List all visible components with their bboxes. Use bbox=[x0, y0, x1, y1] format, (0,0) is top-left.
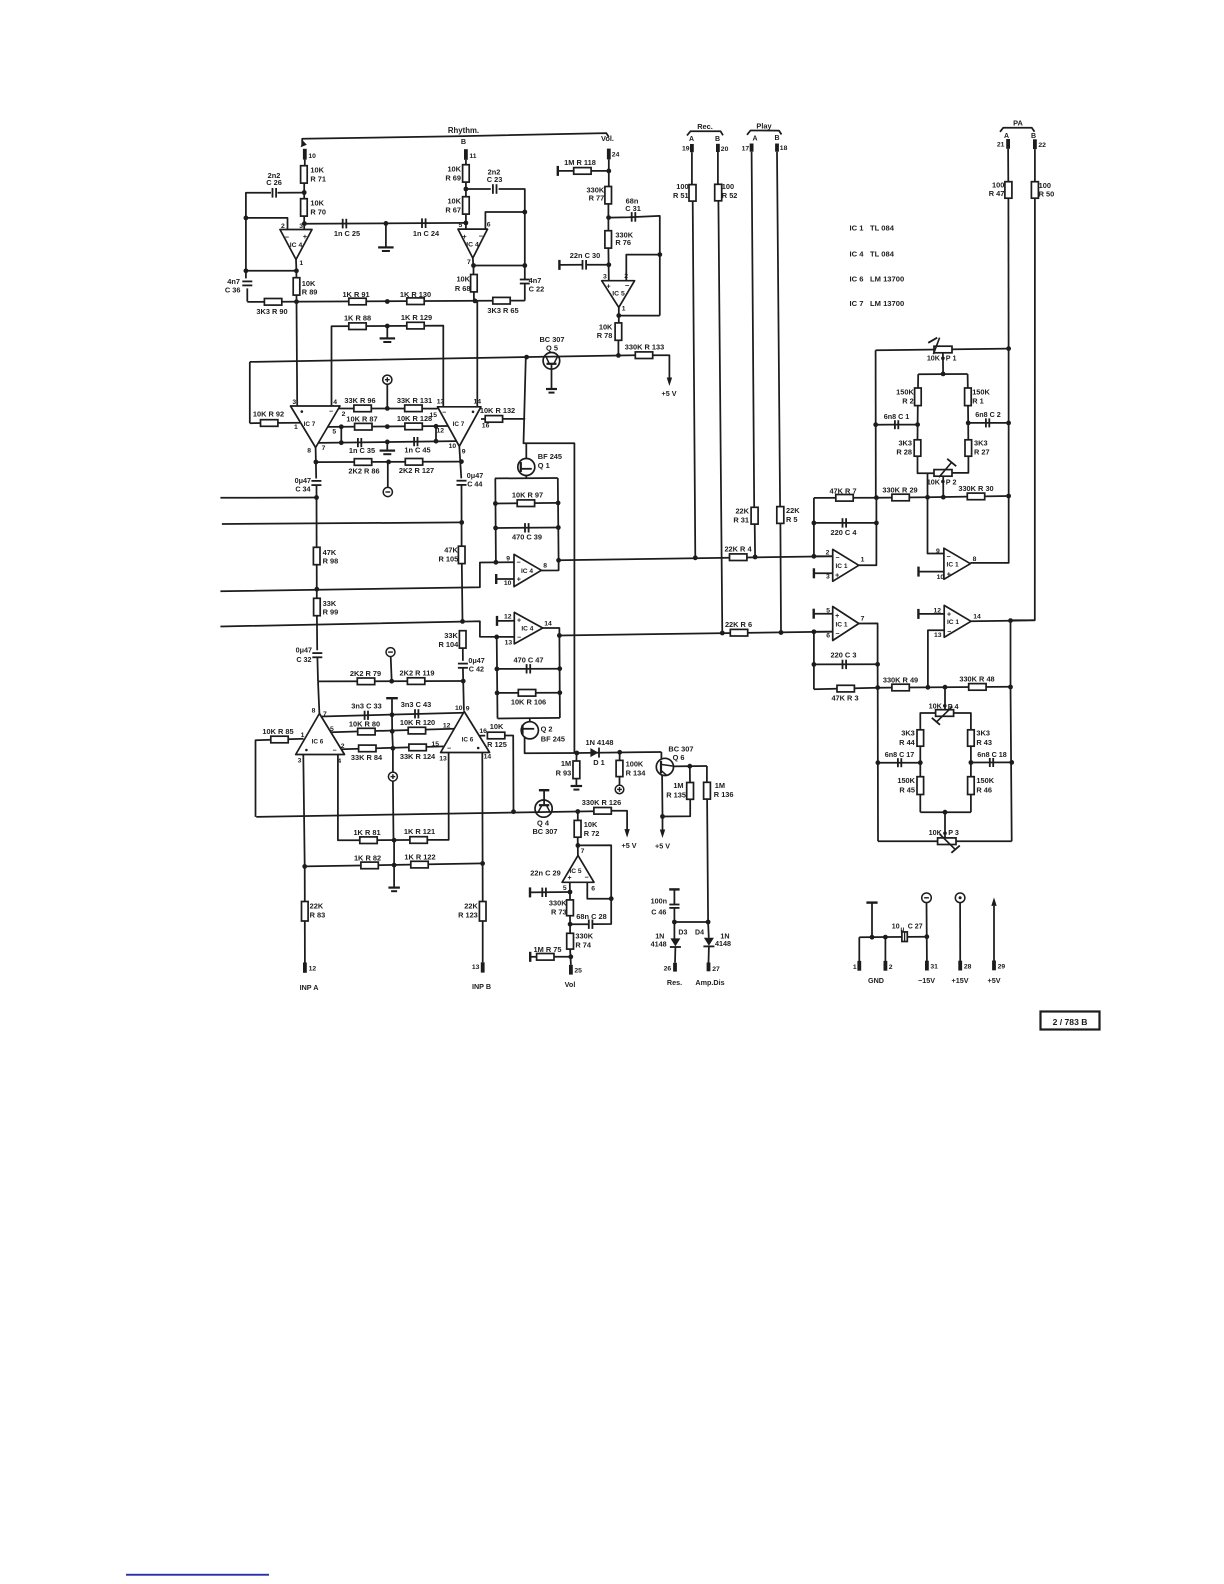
resistor R98 47K bbox=[313, 547, 320, 564]
resistor R72 10K bbox=[574, 820, 581, 837]
wire IC1b output bbox=[859, 623, 878, 664]
svg-text:9: 9 bbox=[462, 449, 466, 456]
svg-text:2K2 R 79: 2K2 R 79 bbox=[350, 669, 381, 678]
node bus2 right junction bbox=[480, 861, 485, 866]
op-amp IC7 section B (down, pins 13,14,15,12,10,16,9) bbox=[438, 407, 482, 447]
wire R45 top bbox=[919, 763, 921, 777]
svg-text:330K R 49: 330K R 49 bbox=[883, 675, 918, 684]
svg-text:12: 12 bbox=[436, 428, 444, 435]
ground inverted above C33 line bbox=[386, 697, 398, 699]
op-amp IC4 section B (pins 5,6,7) bbox=[458, 229, 488, 258]
svg-text:13: 13 bbox=[934, 632, 942, 639]
wire Q5 base to ground bbox=[551, 364, 553, 389]
svg-text:10K R 120: 10K R 120 bbox=[400, 718, 435, 727]
svg-text:10K R 87: 10K R 87 bbox=[346, 414, 377, 423]
svg-text:1n C 24: 1n C 24 bbox=[413, 229, 440, 238]
diode D1 1N4148 bbox=[590, 748, 598, 757]
wire IC1d output bbox=[971, 620, 1035, 621]
capacitor C34 0u47 bbox=[311, 480, 321, 482]
node bus mid junction bbox=[385, 299, 390, 304]
wire plus to bus bbox=[386, 384, 388, 408]
svg-text:−: − bbox=[517, 560, 521, 567]
svg-text:33K R 131: 33K R 131 bbox=[397, 396, 432, 405]
svg-text:47K: 47K bbox=[444, 546, 458, 555]
wire R72 to pin7 node bbox=[577, 837, 579, 855]
wire pin12 stub bbox=[918, 613, 944, 615]
op-amp IC6 section B (up, pins 10,9,12,15,13,16,14) bbox=[441, 712, 490, 753]
resistor R80 10K bbox=[358, 728, 375, 735]
svg-text:330K: 330K bbox=[575, 932, 593, 941]
wire IC4c output bbox=[541, 560, 558, 570]
wire output loop right bbox=[659, 255, 661, 316]
svg-text:6n8 C 1: 6n8 C 1 bbox=[884, 412, 910, 421]
svg-text:R 76: R 76 bbox=[615, 238, 631, 247]
svg-text:3n3 C 43: 3n3 C 43 bbox=[401, 700, 431, 709]
power +5V arrow below Q6 bbox=[662, 817, 664, 831]
svg-text:100K: 100K bbox=[626, 759, 644, 768]
svg-text:D4: D4 bbox=[695, 930, 704, 937]
net PA bracket bbox=[1000, 128, 1035, 132]
svg-text:25: 25 bbox=[574, 967, 582, 974]
svg-text:5: 5 bbox=[563, 885, 567, 892]
node pin7 junction bbox=[576, 843, 581, 848]
svg-text:10K R 132: 10K R 132 bbox=[480, 406, 515, 415]
node pin3 IC5 junction bbox=[606, 262, 611, 267]
node left loop junction bbox=[244, 216, 249, 221]
pin 12 INP A bbox=[303, 963, 307, 973]
wire IC6R pin16 to R125 bbox=[479, 735, 485, 737]
wire R6 line to IC1b bbox=[559, 632, 832, 636]
wire C46 to D3 node bbox=[673, 908, 675, 939]
svg-text:10K: 10K bbox=[310, 166, 324, 175]
resistor R71 10K bbox=[301, 166, 308, 183]
svg-text:−: − bbox=[329, 408, 333, 415]
wire pin6 stub bbox=[814, 631, 833, 633]
wire output to left loop bbox=[246, 270, 297, 272]
svg-text:1M: 1M bbox=[673, 781, 683, 790]
resistor R87 10K bbox=[355, 423, 372, 430]
resistor R86 2K2 bbox=[354, 459, 371, 466]
node pin2/C31/output junction bbox=[657, 252, 662, 257]
wire Q1 source bbox=[525, 476, 527, 479]
svg-text:R 74: R 74 bbox=[575, 941, 592, 950]
svg-text:22: 22 bbox=[1038, 142, 1046, 149]
wire IC6L apex vertical from bus3 bbox=[318, 681, 319, 713]
svg-text:BF 245: BF 245 bbox=[538, 452, 562, 461]
svg-text:15: 15 bbox=[431, 741, 439, 748]
svg-text:1M: 1M bbox=[561, 759, 571, 768]
svg-text:1N 4148: 1N 4148 bbox=[586, 738, 614, 747]
svg-text:21: 21 bbox=[997, 142, 1005, 149]
node C3 left junction bbox=[812, 662, 817, 667]
svg-text:R 105: R 105 bbox=[438, 554, 458, 563]
wire minus stem to bus3 bbox=[391, 657, 392, 682]
svg-text:10K R 97: 10K R 97 bbox=[512, 491, 543, 500]
label sheet number 2/783B bbox=[1041, 1012, 1100, 1030]
wire output to C22 branch bbox=[474, 265, 525, 267]
op-amp IC5 section B (up, pins 7,5,6) bbox=[562, 855, 594, 882]
wire R104 to C42 bbox=[462, 648, 464, 661]
resistor R1 150K bbox=[965, 388, 972, 406]
wire R45 to bottom bus bbox=[919, 795, 921, 813]
capacitor C22 4n7 bbox=[520, 279, 530, 281]
svg-text:IC 1: IC 1 bbox=[947, 561, 959, 568]
wire IC4b output bbox=[472, 258, 475, 265]
wire GND bus bbox=[859, 936, 927, 939]
wire C18 line bbox=[971, 761, 1012, 763]
wire R69 to R67 bbox=[465, 182, 467, 198]
resistor R119 2K2 bbox=[407, 678, 424, 685]
wire R30 line bbox=[928, 496, 1009, 497]
wire pin2 loop of IC5 bbox=[626, 255, 660, 281]
wire GND stem bbox=[871, 903, 873, 938]
svg-text:+15V: +15V bbox=[952, 976, 969, 985]
wire R97 line bbox=[495, 502, 558, 505]
node D4 junction bbox=[706, 920, 711, 925]
node IC5 output junction bbox=[616, 313, 621, 318]
node C28/R73/R74 junction bbox=[568, 922, 573, 927]
diode D3 1N4148 bbox=[670, 938, 680, 946]
node pin13 riser junction bbox=[926, 685, 931, 690]
svg-text:3K3: 3K3 bbox=[898, 438, 912, 447]
svg-text:7: 7 bbox=[861, 615, 865, 622]
node R30 right junction bbox=[1006, 494, 1011, 499]
wire R46 top bbox=[970, 763, 972, 777]
capacitor C45 1n bbox=[413, 437, 415, 446]
svg-text:IC 1: IC 1 bbox=[835, 622, 847, 629]
svg-text:68n C 28: 68n C 28 bbox=[576, 912, 606, 921]
node C3 right junction bbox=[875, 662, 880, 667]
svg-text:TL 084: TL 084 bbox=[870, 224, 895, 233]
svg-text:R 104: R 104 bbox=[438, 640, 459, 649]
wire R123 pin 13 bbox=[482, 921, 484, 962]
wire D4 to pin 27 bbox=[708, 946, 710, 962]
node C2 left junction bbox=[966, 421, 971, 426]
svg-text:10K R 80: 10K R 80 bbox=[349, 719, 380, 728]
capacitor C26 2n2 bbox=[272, 188, 274, 198]
svg-text:150K: 150K bbox=[897, 776, 915, 785]
wire R88/R129 bus bbox=[332, 326, 444, 407]
wire pin1 riser bbox=[858, 937, 860, 961]
svg-text:10: 10 bbox=[449, 443, 457, 450]
wire R136 corner down bbox=[706, 766, 708, 782]
wire R68 to bus bbox=[473, 292, 475, 301]
node C39 right bbox=[556, 525, 561, 530]
ground below R88/R129 bbox=[386, 326, 388, 338]
op-amp IC4 section D (pins 12,13,14) bbox=[514, 612, 542, 644]
wire C25 line bbox=[304, 222, 465, 225]
svg-text:IC 1: IC 1 bbox=[835, 563, 847, 570]
wire R78 to long wire bbox=[617, 340, 619, 355]
svg-text:R 2: R 2 bbox=[902, 397, 914, 406]
svg-text:470 C 47: 470 C 47 bbox=[514, 655, 544, 664]
node bus3 right junction bbox=[461, 679, 466, 684]
node R7/R29/output junction bbox=[874, 495, 879, 500]
resistor R82 1K bbox=[361, 862, 378, 869]
svg-text:R 83: R 83 bbox=[310, 911, 326, 920]
resistor R49 330K bbox=[892, 684, 909, 691]
svg-text:33K: 33K bbox=[444, 631, 458, 640]
capacitor C46 100n bbox=[669, 904, 679, 906]
svg-text:150K: 150K bbox=[896, 388, 914, 397]
wire 2K2 bus bbox=[316, 461, 462, 464]
wire plus stem bbox=[392, 748, 394, 772]
svg-text:−: − bbox=[285, 233, 290, 242]
wire C39 line bbox=[496, 527, 559, 530]
wire R47 down to P1 bbox=[1007, 198, 1009, 348]
node 2K2 bus mid junction bbox=[386, 460, 391, 465]
wire pin3 riser INP A bbox=[303, 755, 304, 867]
op-amp IC1 section B (pins 5,6,7) bbox=[833, 607, 859, 641]
node pin6 IC1b junction bbox=[812, 629, 817, 634]
svg-text:−: − bbox=[835, 631, 839, 638]
svg-text:13: 13 bbox=[505, 639, 513, 646]
wire R133 to +5V corner bbox=[653, 355, 670, 378]
svg-text:R 78: R 78 bbox=[597, 331, 613, 340]
op-amp IC4 section C (pins 9,10,8) bbox=[514, 554, 541, 586]
wire R52 down to R6 line bbox=[718, 201, 722, 633]
svg-text:C 32: C 32 bbox=[296, 655, 311, 664]
resistor R65 3K3 bbox=[493, 297, 510, 304]
svg-text:3K3: 3K3 bbox=[976, 729, 990, 738]
svg-text:R 5: R 5 bbox=[786, 515, 798, 524]
decorative blue rule bbox=[126, 1574, 269, 1576]
wire Q4 long line bbox=[256, 811, 594, 817]
svg-text:R 77: R 77 bbox=[589, 193, 605, 202]
capacitor C30 22n bbox=[582, 260, 584, 270]
svg-text:14: 14 bbox=[474, 398, 482, 405]
svg-text:+: + bbox=[835, 573, 839, 580]
svg-text:0μ47: 0μ47 bbox=[296, 645, 312, 654]
svg-text:−15V: −15V bbox=[918, 976, 935, 985]
op-amp IC1 section D (pins 12,13,14) bbox=[944, 605, 971, 637]
wire PA B line bbox=[1034, 149, 1036, 182]
wire input line 4 bbox=[220, 621, 514, 637]
svg-text:IC 4: IC 4 bbox=[850, 250, 865, 259]
wire output loop right vertical bbox=[558, 636, 561, 718]
wire pin5 stub bbox=[569, 882, 571, 892]
wire P4 network right vertical bbox=[1011, 687, 1012, 841]
svg-text:R 50: R 50 bbox=[1039, 190, 1055, 199]
svg-text:GND: GND bbox=[868, 976, 884, 985]
node R88/R129 mid junction bbox=[385, 324, 390, 329]
svg-text:22K R 4: 22K R 4 bbox=[724, 545, 752, 554]
svg-text:C 34: C 34 bbox=[295, 485, 310, 494]
svg-text:13: 13 bbox=[439, 756, 447, 763]
wire pin6 loop bbox=[485, 212, 524, 229]
wire R67 to pin5 node bbox=[465, 214, 467, 229]
wire C2 line bbox=[968, 422, 1008, 424]
wire R93 to ground bbox=[575, 779, 577, 786]
svg-text:12: 12 bbox=[309, 966, 317, 973]
svg-text:IC 5: IC 5 bbox=[612, 290, 625, 297]
node C47 left bbox=[495, 667, 500, 672]
svg-text:+: + bbox=[947, 612, 951, 619]
svg-text:LM 13700: LM 13700 bbox=[870, 275, 904, 284]
potentiometer P1 10K bbox=[934, 346, 952, 353]
wire output to R89 bbox=[295, 271, 297, 278]
wire P1 wiper stem bbox=[942, 353, 944, 374]
wire D1 line bbox=[577, 752, 662, 753]
node R118/Vol junction bbox=[606, 169, 611, 174]
svg-text:17: 17 bbox=[742, 145, 750, 152]
svg-text:IC 4: IC 4 bbox=[521, 626, 533, 633]
svg-text:1K R 81: 1K R 81 bbox=[353, 828, 380, 837]
node minus symbol above bus3 bbox=[386, 648, 395, 657]
node R75 junction bbox=[568, 954, 573, 959]
svg-text:1: 1 bbox=[861, 556, 865, 563]
capacitor C23 2n2 bbox=[492, 184, 494, 194]
svg-text:LM 13700: LM 13700 bbox=[870, 299, 904, 308]
wire D3 to pin 26 bbox=[674, 947, 676, 963]
resistor R78 10K bbox=[615, 323, 622, 340]
node C1 right junction bbox=[915, 422, 920, 427]
wire pin5 stub bbox=[814, 613, 833, 615]
svg-text:1: 1 bbox=[294, 424, 298, 431]
svg-text:26: 26 bbox=[664, 966, 672, 973]
wire input line 2 bbox=[222, 522, 462, 524]
svg-text:1M R 75: 1M R 75 bbox=[534, 945, 562, 954]
resistor R131 33K bbox=[405, 405, 422, 412]
wire output vertical to R49 bbox=[877, 664, 879, 687]
resistor R125 10K bbox=[487, 732, 504, 739]
svg-text:220 C 4: 220 C 4 bbox=[831, 528, 858, 537]
net Rec bracket bbox=[687, 131, 723, 135]
resistor R134 100K bbox=[616, 760, 623, 776]
wire pin10 to R71 bbox=[304, 160, 306, 166]
wire IC7 pin8 vertical bbox=[315, 448, 318, 479]
resistor R124 33K bbox=[409, 744, 426, 751]
svg-text:−: − bbox=[517, 634, 521, 641]
wire IC4d output bbox=[543, 628, 560, 636]
svg-text:R 136: R 136 bbox=[714, 790, 734, 799]
svg-text:P 3: P 3 bbox=[948, 828, 959, 837]
pin 26 Res bbox=[673, 963, 677, 972]
wire R132 to rail bbox=[503, 418, 526, 420]
node R5 junction bbox=[779, 630, 784, 635]
capacitor C25 1n bbox=[342, 219, 344, 229]
svg-text:10K: 10K bbox=[584, 820, 598, 829]
wire IC7 pin9 vertical bbox=[459, 446, 461, 478]
svg-text:10K: 10K bbox=[447, 165, 461, 174]
pin 22 bbox=[1033, 139, 1037, 149]
resistor R135 1M bbox=[687, 783, 694, 800]
svg-text:Play: Play bbox=[756, 121, 772, 130]
node +5V junction below Q6 bbox=[660, 814, 665, 819]
wire C30 right bbox=[587, 264, 609, 266]
node GND junction 1 bbox=[870, 935, 875, 940]
wire R3 line bbox=[814, 688, 878, 690]
node D3 junction bbox=[672, 920, 677, 925]
wire PA A line bbox=[1007, 149, 1009, 182]
resistor R129 1K bbox=[407, 322, 424, 329]
node wire2 junction bbox=[459, 520, 464, 525]
wire R7 line bbox=[814, 497, 877, 499]
wire loop left vertical bbox=[494, 478, 497, 562]
wire input line 3 bbox=[220, 562, 513, 591]
node C39 left bbox=[493, 526, 498, 531]
wire pin2 stub bbox=[814, 555, 833, 557]
node 2K2 bus right junction bbox=[459, 459, 464, 464]
svg-text:33K R 124: 33K R 124 bbox=[400, 752, 436, 761]
wire P4 right leg bbox=[954, 713, 971, 730]
pin 24 bbox=[607, 149, 611, 160]
node R72/R126 junction bbox=[575, 809, 580, 814]
svg-text:10K R 85: 10K R 85 bbox=[262, 727, 293, 736]
svg-text:2: 2 bbox=[889, 964, 893, 971]
resistor R88 1K bbox=[349, 323, 366, 330]
svg-text:R 93: R 93 bbox=[556, 768, 572, 777]
svg-text:R 1: R 1 bbox=[972, 397, 984, 406]
node C47 right bbox=[557, 666, 562, 671]
svg-text:B: B bbox=[774, 135, 779, 142]
svg-text:1n C 25: 1n C 25 bbox=[334, 229, 360, 238]
wire R80/R120 bus bbox=[331, 729, 454, 733]
svg-text:4: 4 bbox=[333, 399, 337, 406]
svg-text:10: 10 bbox=[937, 574, 945, 581]
svg-text:10K: 10K bbox=[310, 199, 324, 208]
wire P2 right leg bbox=[952, 456, 969, 473]
svg-text:BC 307: BC 307 bbox=[532, 827, 557, 836]
svg-text:+5V: +5V bbox=[988, 976, 1001, 985]
capacitor C42 0u47 bbox=[458, 663, 468, 665]
svg-text:Res.: Res. bbox=[667, 978, 682, 987]
ground R93 bbox=[571, 785, 583, 787]
wire Q1 loop top bbox=[495, 477, 558, 479]
transistor Q1 BF245 bbox=[518, 459, 535, 476]
svg-text:TL 084: TL 084 bbox=[870, 250, 895, 259]
svg-text:100n: 100n bbox=[651, 897, 667, 906]
svg-text:100: 100 bbox=[722, 182, 734, 191]
svg-text:47K R 7: 47K R 7 bbox=[829, 486, 856, 495]
resistor R46 150K bbox=[968, 777, 975, 795]
power +5V arrow bbox=[667, 378, 672, 387]
svg-text:R 72: R 72 bbox=[584, 829, 600, 838]
wire C26 node to pin 2 of IC4a bbox=[246, 218, 288, 230]
svg-text:10: 10 bbox=[308, 153, 316, 160]
resistor R93 1M bbox=[573, 761, 580, 779]
svg-text:C 27: C 27 bbox=[908, 924, 923, 931]
resistor R6 22K bbox=[730, 629, 747, 636]
svg-text:IC 7: IC 7 bbox=[304, 421, 316, 428]
wire R134 to plus symbol bbox=[619, 777, 621, 785]
svg-text:+: + bbox=[303, 232, 308, 241]
resistor R30 330K bbox=[967, 493, 984, 500]
wire center column to ground bbox=[393, 840, 395, 887]
wire R71 to R70 bbox=[303, 183, 305, 199]
resistor R28 3K3 bbox=[914, 440, 921, 456]
resistor R77 330K bbox=[605, 187, 612, 204]
node pin6/C23 junction bbox=[522, 210, 527, 215]
svg-text:14: 14 bbox=[973, 613, 981, 620]
svg-text:10K R 92: 10K R 92 bbox=[253, 410, 284, 419]
node minus symbol below 2K2 bus bbox=[383, 487, 392, 496]
svg-text:1K R 82: 1K R 82 bbox=[354, 853, 381, 862]
svg-text:R 135: R 135 bbox=[666, 790, 686, 799]
terminator bar R118 bbox=[557, 166, 559, 176]
svg-text:C 23: C 23 bbox=[487, 175, 503, 184]
node R3/R49 junction bbox=[875, 685, 880, 690]
svg-text:10K: 10K bbox=[447, 197, 461, 206]
wire R77 to R76 bbox=[607, 204, 609, 232]
resistor R123 22K bbox=[479, 902, 486, 922]
svg-text:R 125: R 125 bbox=[487, 740, 507, 749]
svg-text:A: A bbox=[752, 135, 757, 142]
wire pin5 node to R73 bbox=[569, 892, 571, 900]
svg-text:3n3 C 33: 3n3 C 33 bbox=[351, 701, 381, 710]
node R52 junction bbox=[720, 631, 725, 636]
capacitor C28 68n bbox=[588, 920, 590, 929]
